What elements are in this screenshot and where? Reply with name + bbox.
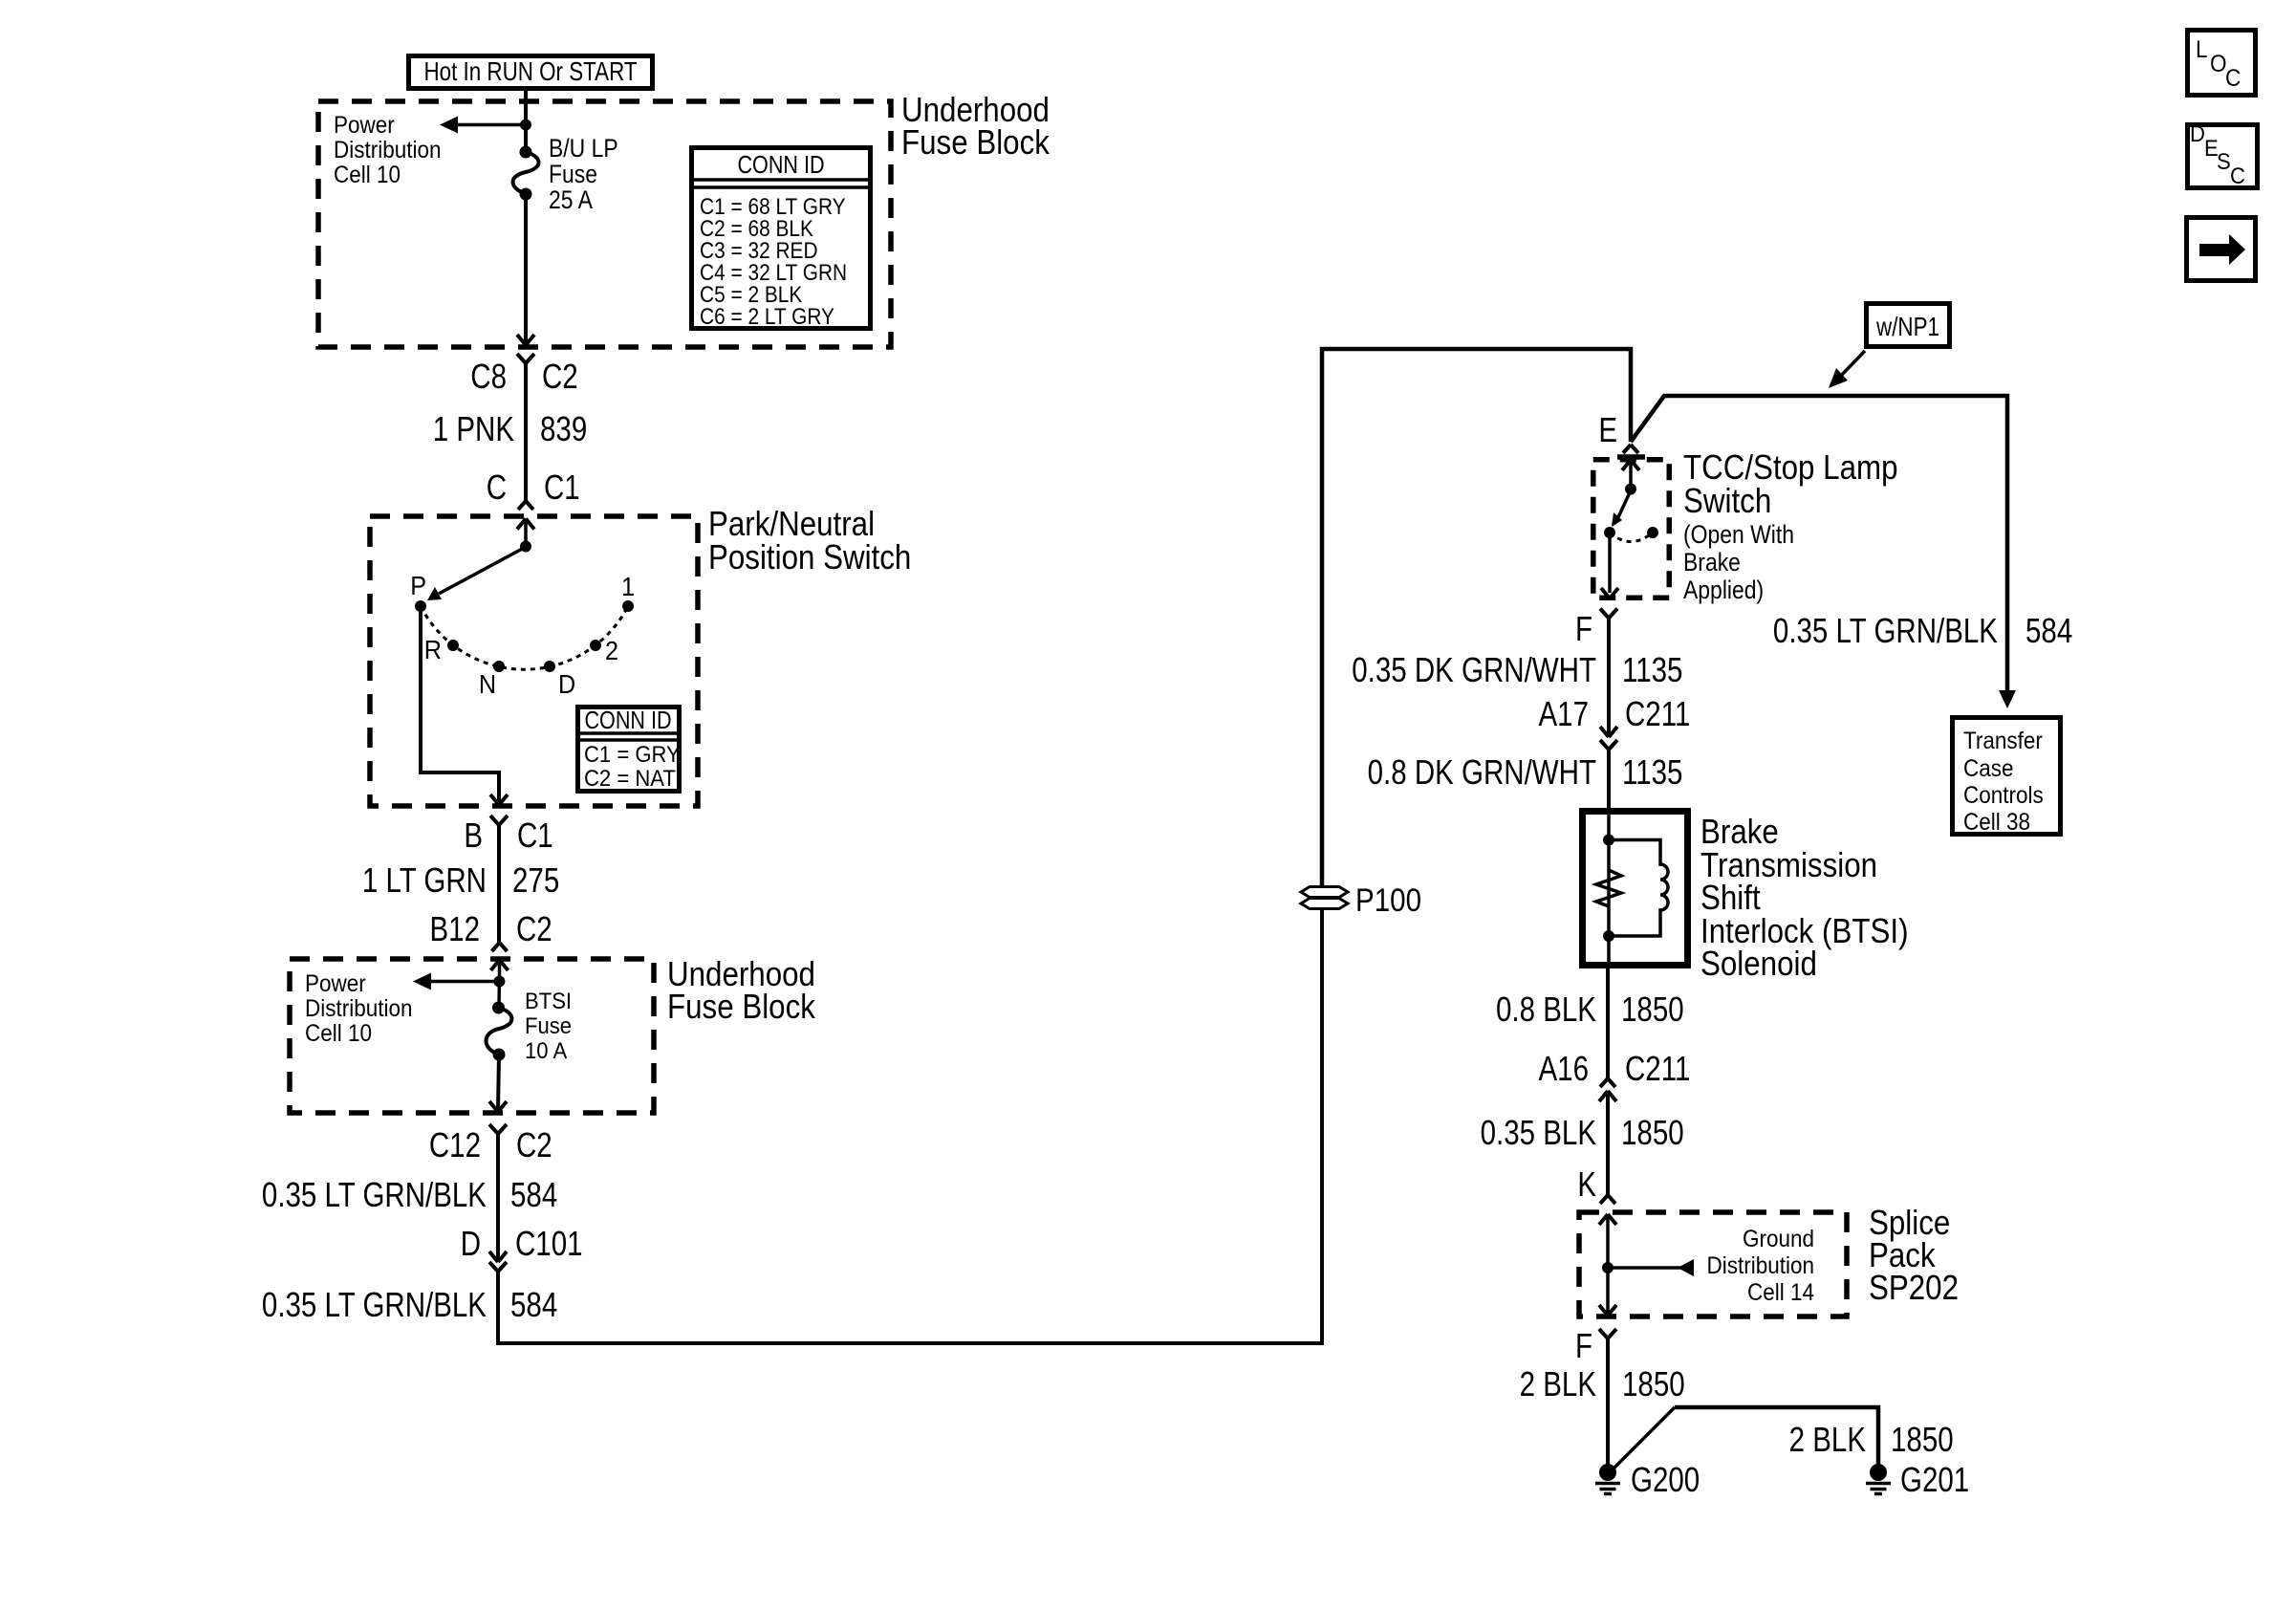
svg-text:R: R (424, 635, 442, 665)
position contact 2 (590, 640, 601, 651)
wire: branch to transfer case controls (1631, 396, 2007, 692)
entry arrow into splice pack (1606, 1214, 1610, 1268)
TCC/stop lamp switch (dashed boundary) (1593, 460, 1670, 598)
wire: arrow to Ground Distribution (1608, 1266, 1690, 1270)
svg-text:C2: C2 (516, 1125, 552, 1164)
svg-text:C12: C12 (429, 1125, 481, 1164)
svg-text:2 BLK: 2 BLK (1520, 1364, 1596, 1403)
svg-text:Power: Power (334, 112, 395, 139)
svg-text:1850: 1850 (1621, 1113, 1684, 1151)
svg-text:1850: 1850 (1622, 1364, 1685, 1403)
ground G200 (1599, 1464, 1616, 1481)
DESC icon box (2188, 125, 2258, 188)
connector C8/C2 (exit arrow + fork) (517, 335, 526, 345)
wire: from P contact down and out (421, 606, 499, 803)
wire: switch output (1608, 533, 1612, 593)
switch arm with arrowhead toward P (439, 547, 526, 594)
svg-text:C101: C101 (515, 1224, 583, 1262)
svg-text:D: D (558, 669, 575, 700)
svg-text:10 A: 10 A (525, 1037, 568, 1063)
svg-text:(Open With: (Open With (1683, 520, 1794, 549)
resistor element (1596, 870, 1621, 906)
svg-text:Cell 10: Cell 10 (334, 162, 401, 188)
dashed travel arc (1610, 533, 1653, 542)
switch arm with arrowhead (1618, 490, 1631, 517)
wire: branch to G201 (1612, 1407, 1675, 1470)
svg-text:Distribution: Distribution (305, 995, 412, 1022)
svg-text:E: E (1598, 410, 1617, 448)
svg-text:L: L (2196, 36, 2208, 63)
svg-text:839: 839 (540, 409, 587, 447)
svg-text:Case: Case (1963, 755, 2013, 782)
svg-text:C6 = 2 LT GRY: C6 = 2 LT GRY (700, 304, 834, 330)
svg-text:1 LT GRN: 1 LT GRN (362, 860, 487, 899)
svg-text:0.35 DK GRN/WHT: 0.35 DK GRN/WHT (1352, 650, 1596, 688)
svg-text:F: F (1575, 609, 1592, 647)
svg-text:C: C (2225, 65, 2241, 92)
svg-text:1135: 1135 (1622, 752, 1682, 791)
position contact N (493, 661, 505, 672)
switch pivot dot (520, 541, 531, 553)
svg-text:C: C (2230, 163, 2245, 188)
svg-text:C2: C2 (516, 909, 552, 947)
CONN ID table (fuse block 1) (692, 148, 871, 329)
switch open-position dot (1647, 527, 1658, 538)
connector C12/C2 (489, 1124, 498, 1134)
svg-text:Ground: Ground (1743, 1226, 1814, 1252)
svg-text:CONN ID: CONN ID (737, 151, 824, 179)
svg-text:B12: B12 (429, 909, 480, 947)
underhood fuse block 1 (dashed boundary) (318, 101, 891, 347)
underhood fuse block 2 (dashed boundary) (290, 959, 654, 1113)
splice pack SP202 (dashed boundary) (1579, 1212, 1847, 1316)
wire: hot feed into fuse block (524, 91, 528, 152)
svg-text:2: 2 (605, 636, 618, 666)
svg-text:A17: A17 (1538, 694, 1589, 732)
wire: arrow to Power Distribution (431, 980, 499, 984)
svg-text:Position Switch: Position Switch (708, 538, 911, 577)
svg-text:Applied): Applied) (1683, 576, 1764, 604)
svg-text:N: N (479, 669, 496, 700)
node junction dot (520, 120, 531, 131)
svg-text:S: S (2217, 148, 2231, 174)
wire: long run via P100 up to switch (498, 909, 1322, 1343)
svg-text:Hot In RUN Or START: Hot In RUN Or START (423, 57, 637, 87)
wire: fuse output down (498, 1055, 499, 1111)
svg-text:1850: 1850 (1621, 990, 1684, 1028)
svg-text:Cell 38: Cell 38 (1963, 809, 2030, 836)
solenoid internal wire + junction dots (1607, 813, 1611, 965)
svg-text:584: 584 (510, 1175, 557, 1213)
svg-text:0.8 BLK: 0.8 BLK (1496, 990, 1596, 1028)
svg-text:P: P (410, 571, 426, 601)
svg-text:B: B (464, 816, 483, 854)
switch upper contact arrow (1629, 460, 1633, 489)
wire: arrow to Power Distribution (457, 123, 526, 127)
svg-text:2 BLK: 2 BLK (1789, 1420, 1866, 1458)
svg-text:Fuse Block: Fuse Block (667, 988, 815, 1027)
svg-text:BTSI: BTSI (525, 988, 572, 1013)
svg-text:O: O (2210, 51, 2227, 77)
svg-text:275: 275 (512, 860, 559, 899)
callout box w/NP1 (1867, 304, 1950, 347)
svg-text:Distribution: Distribution (334, 137, 441, 163)
svg-text:C2: C2 (542, 357, 578, 395)
grommet P100 (1301, 887, 1348, 898)
switch fixed contact bar (1617, 454, 1645, 460)
svg-text:Power: Power (305, 970, 366, 997)
svg-text:P100: P100 (1355, 881, 1421, 918)
svg-text:C2 = NAT: C2 = NAT (584, 765, 676, 791)
switch lower contact dot (1604, 527, 1615, 538)
svg-text:1850: 1850 (1891, 1420, 1954, 1458)
svg-text:D: D (461, 1224, 481, 1262)
svg-text:D: D (2190, 120, 2205, 146)
svg-text:Distribution: Distribution (1707, 1252, 1814, 1279)
svg-text:C1: C1 (544, 468, 580, 506)
splice junction dot (1602, 1262, 1614, 1273)
ground G201 (1870, 1464, 1887, 1481)
svg-text:0.8 DK GRN/WHT: 0.8 DK GRN/WHT (1368, 752, 1596, 791)
svg-text:1 PNK: 1 PNK (433, 409, 514, 447)
svg-text:Switch: Switch (1683, 482, 1771, 521)
svg-text:Fuse: Fuse (525, 1012, 572, 1038)
svg-text:Fuse: Fuse (549, 160, 597, 188)
position contact 1 (622, 600, 634, 612)
position contact D (544, 661, 555, 672)
svg-text:Brake: Brake (1683, 548, 1741, 577)
fuse F1: B/U LP Fuse 25 A (520, 146, 532, 159)
CONN ID table (P/N switch) (578, 707, 680, 792)
svg-text:584: 584 (2025, 611, 2072, 649)
svg-text:Controls: Controls (1963, 782, 2044, 809)
svg-text:Cell 10: Cell 10 (305, 1020, 372, 1047)
svg-text:1: 1 (621, 572, 635, 602)
svg-text:C: C (487, 468, 507, 506)
svg-text:0.35 BLK: 0.35 BLK (1481, 1113, 1596, 1151)
junction dot (493, 976, 505, 988)
connector B/C1 (490, 816, 499, 825)
svg-text:G201: G201 (1900, 1460, 1969, 1498)
svg-text:A16: A16 (1538, 1049, 1589, 1087)
page arrow icon box (2187, 218, 2256, 281)
fuse F2: BTSI Fuse 10 A (497, 982, 501, 1009)
component box: BTSI solenoid (1583, 812, 1688, 966)
park/neutral position switch (dashed boundary) (370, 516, 698, 806)
svg-text:584: 584 (510, 1285, 557, 1323)
dashed arc through contacts (421, 606, 628, 669)
component box: Transfer Case Controls Cell 38 (1953, 718, 2061, 835)
node: Hot In RUN Or START feed box (409, 56, 653, 89)
svg-text:C1: C1 (517, 816, 553, 854)
coil element (1609, 840, 1668, 937)
svg-text:G200: G200 (1631, 1460, 1700, 1498)
svg-text:CONN ID: CONN ID (584, 707, 671, 734)
svg-text:F: F (1575, 1326, 1592, 1364)
svg-text:K: K (1577, 1164, 1596, 1203)
svg-text:Cell 14: Cell 14 (1747, 1279, 1814, 1306)
svg-text:25 A: 25 A (549, 185, 593, 214)
svg-text:C8: C8 (470, 357, 507, 395)
wire: fuse output down (524, 194, 528, 344)
svg-text:Solenoid: Solenoid (1700, 945, 1817, 984)
svg-text:C1 = GRY: C1 = GRY (584, 741, 681, 767)
wire: solenoid output (1606, 968, 1610, 1078)
exit arrow from splice pack (1606, 1268, 1610, 1316)
svg-text:B/U LP: B/U LP (549, 134, 618, 163)
LOC icon box (2188, 31, 2256, 96)
svg-text:C211: C211 (1625, 694, 1690, 732)
arrow from w/NP1 to wire (1839, 351, 1865, 378)
svg-text:Fuse Block: Fuse Block (901, 123, 1050, 163)
position contact R (447, 640, 459, 651)
svg-text:C211: C211 (1625, 1049, 1690, 1087)
position contact P (415, 600, 426, 612)
svg-text:Transfer: Transfer (1963, 728, 2043, 754)
svg-text:w/NP1: w/NP1 (1875, 313, 1939, 342)
svg-text:0.35 LT GRN/BLK: 0.35 LT GRN/BLK (262, 1175, 487, 1213)
svg-text:0.35 LT GRN/BLK: 0.35 LT GRN/BLK (1773, 611, 1998, 649)
svg-text:0.35 LT GRN/BLK: 0.35 LT GRN/BLK (262, 1285, 487, 1323)
svg-text:1135: 1135 (1622, 650, 1682, 688)
svg-text:SP202: SP202 (1869, 1269, 1959, 1308)
